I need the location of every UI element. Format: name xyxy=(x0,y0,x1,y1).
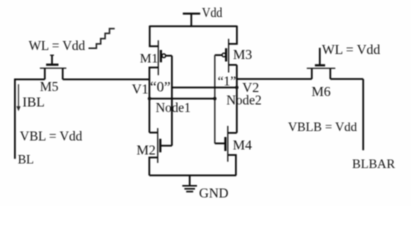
wire M4 source stub xyxy=(228,155,236,175)
transistor M1 gate plate xyxy=(160,50,162,62)
wire M1 gate to gate-line xyxy=(166,55,172,57)
wire right gate line xyxy=(214,55,216,143)
wire top rail xyxy=(150,25,237,27)
svg-text:VBL = Vdd: VBL = Vdd xyxy=(20,128,83,143)
wire M5 to V1 xyxy=(63,78,150,80)
svg-text:M6: M6 xyxy=(312,84,331,99)
ground symbol xyxy=(182,185,197,187)
node junction dot at V2 and upper cross wire xyxy=(235,86,238,89)
waveform staircase icon xyxy=(89,29,115,49)
wire node V2 vertical xyxy=(236,65,238,133)
svg-text:“1”: “1” xyxy=(218,74,237,89)
wire GND stub xyxy=(189,175,191,185)
transistor M2 channel xyxy=(157,128,159,163)
svg-text:BL: BL xyxy=(18,152,34,166)
node junction dot at right gate line and lower cross wire xyxy=(213,97,216,100)
svg-text:Node2: Node2 xyxy=(226,92,261,107)
wire right rail down to M3 xyxy=(229,26,237,44)
transistor M3 channel xyxy=(228,39,230,73)
wire M3 gate to gate-line xyxy=(215,54,222,56)
svg-text:WL = Vdd: WL = Vdd xyxy=(322,42,380,57)
svg-text:M3: M3 xyxy=(233,47,252,62)
transistor M4 gate plate xyxy=(224,137,226,151)
svg-text:IBL: IBL xyxy=(22,95,44,110)
transistor M1 channel xyxy=(157,40,159,75)
wire M6 gate stub xyxy=(319,48,321,66)
wire M5 gate stub xyxy=(51,55,53,65)
wire bitline BLBAR vertical xyxy=(362,79,364,150)
wire ground rail xyxy=(149,174,236,176)
wire M2 gate tick xyxy=(160,145,172,147)
svg-text:BLBAR: BLBAR xyxy=(352,157,395,171)
transistor M5 gate plate xyxy=(46,64,58,66)
svg-text:Node1: Node1 xyxy=(156,100,191,115)
wire node V1 vertical xyxy=(148,68,150,133)
wire M1 drain stub xyxy=(149,67,158,70)
transistor M6 gate plate xyxy=(315,64,325,66)
svg-text:M5: M5 xyxy=(40,79,59,94)
transistor M4 channel xyxy=(227,126,229,162)
svg-text:M2: M2 xyxy=(137,143,156,158)
transistor M3 gate plate xyxy=(225,48,227,61)
wire bitline BL vertical xyxy=(14,79,16,159)
svg-text:WL = Vdd: WL = Vdd xyxy=(29,38,86,53)
transistor M6 channel xyxy=(307,67,336,69)
wire M5 left stub xyxy=(44,68,46,79)
wire M4 drain stub xyxy=(228,132,237,134)
svg-text:VBLB = Vdd: VBLB = Vdd xyxy=(288,120,358,134)
wire left rail down to M1 xyxy=(150,26,159,47)
wire M6 left stub xyxy=(311,68,313,79)
svg-text:V1: V1 xyxy=(132,82,149,97)
svg-text:Vdd: Vdd xyxy=(202,5,223,20)
power Vdd T-bar xyxy=(183,13,200,15)
wire M5 right stub xyxy=(62,68,64,79)
wire Vdd stub xyxy=(190,14,192,27)
wire M2 drain stub xyxy=(149,132,157,134)
transistor M2 gate plate xyxy=(159,139,161,153)
svg-text:M1: M1 xyxy=(140,51,158,66)
transistor M5 channel xyxy=(40,67,66,69)
node junction dot at V1 and lower cross wire xyxy=(148,97,151,100)
wire left gate line xyxy=(171,56,173,146)
wire V2 to M6 xyxy=(237,78,312,80)
svg-text:M4: M4 xyxy=(233,137,252,152)
wire cross-coupling lower (V1 to gates of M3/M4) xyxy=(149,98,214,100)
wire M4 gate tick xyxy=(215,142,226,144)
wire cross-coupling upper (gates of M1/M2 to V2) xyxy=(172,87,237,89)
transistor M1 bubble xyxy=(162,54,166,58)
wire M5 gate cap xyxy=(50,54,54,56)
wire BL to M5 xyxy=(14,78,45,80)
IBL current arrow xyxy=(18,84,20,109)
transistor M3 bubble xyxy=(222,53,226,57)
wire M6 right stub xyxy=(329,68,331,79)
svg-text:GND: GND xyxy=(199,186,229,201)
wire M3 drain stub xyxy=(229,64,237,66)
wire M2 source stub xyxy=(149,158,157,176)
svg-text:“0”: “0” xyxy=(150,80,171,96)
wire M6 to BLBAR xyxy=(330,78,363,80)
